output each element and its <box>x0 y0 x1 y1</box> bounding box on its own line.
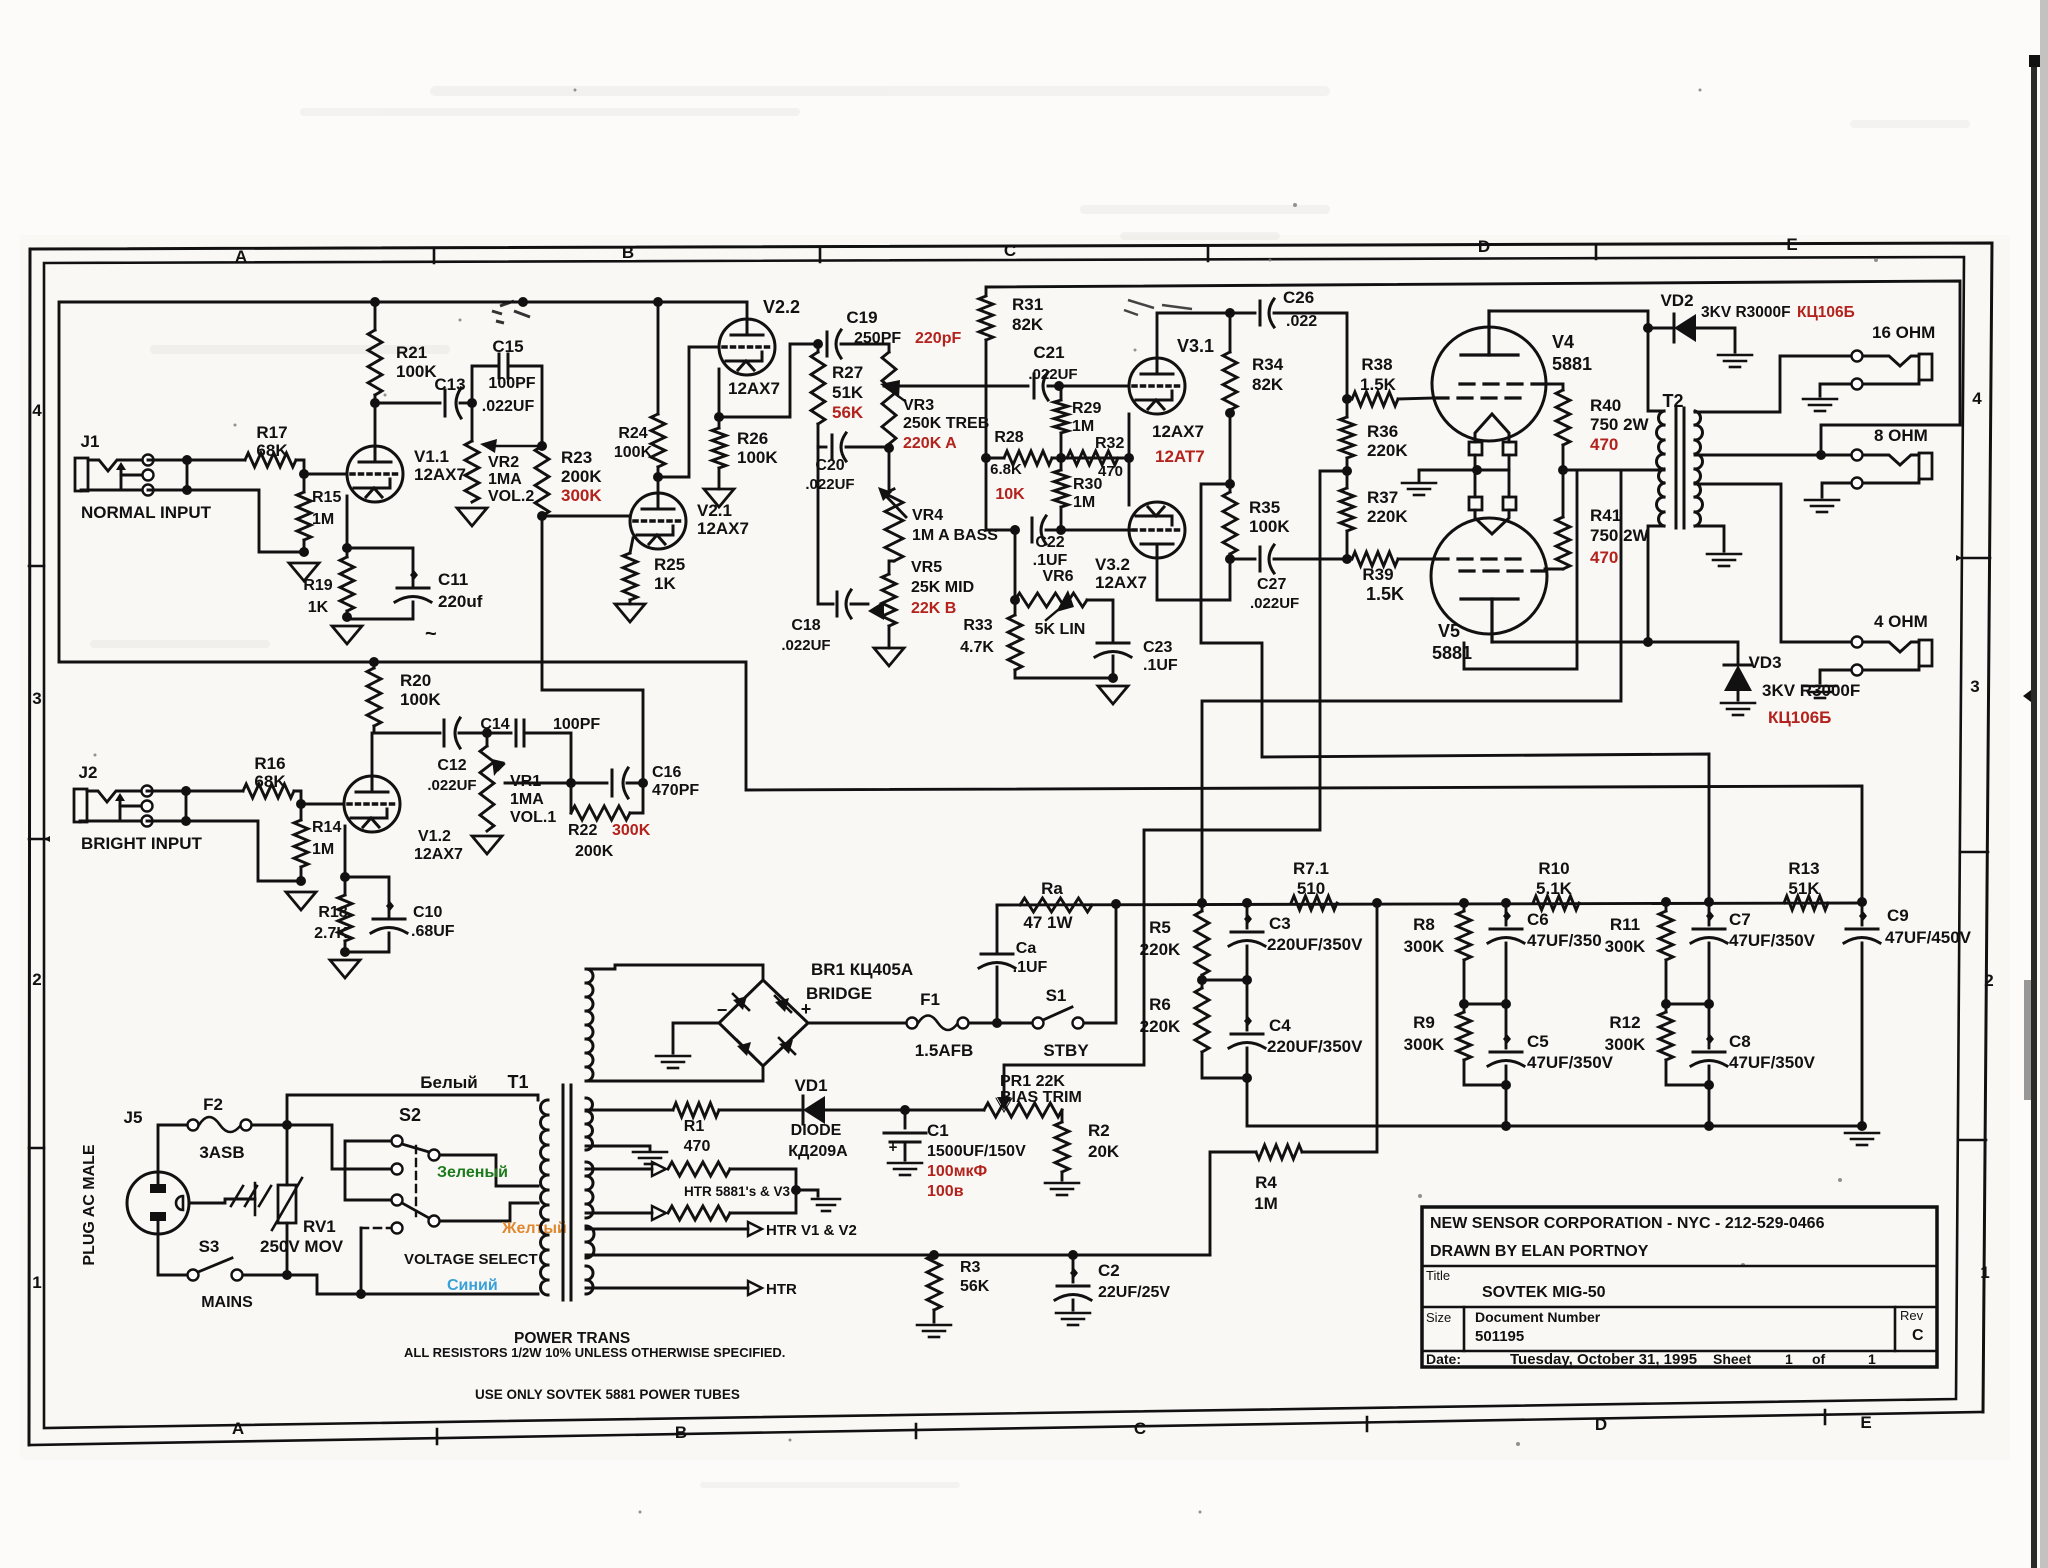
svg-text:300K: 300K <box>612 822 651 839</box>
capacitor C4 220UF/350V <box>1246 980 1249 1030</box>
svg-text:R24: R24 <box>618 425 647 442</box>
svg-text:T2: T2 <box>1662 391 1683 411</box>
wire NFB line from R31 to output jacks <box>986 281 1960 454</box>
svg-text:220UF/350V: 220UF/350V <box>1267 935 1363 954</box>
svg-text:C: C <box>1134 1419 1146 1438</box>
svg-text:F1: F1 <box>920 990 940 1009</box>
node R5/R6 <box>1197 975 1207 985</box>
svg-text:5K LIN: 5K LIN <box>1035 621 1086 638</box>
resistor R11 300K <box>1659 911 1673 960</box>
node C16 out <box>638 778 648 788</box>
svg-text:12AX7: 12AX7 <box>728 379 780 398</box>
svg-text:4 OHM: 4 OHM <box>1874 612 1928 631</box>
svg-text:200K: 200K <box>575 843 614 860</box>
capacitor C22 .1UF <box>1031 518 1034 542</box>
svg-text:Sheet: Sheet <box>1713 1351 1751 1367</box>
ground supply bus <box>1845 1132 1879 1135</box>
svg-text:R27: R27 <box>832 363 863 382</box>
svg-text:HTR V1 & V2: HTR V1 & V2 <box>766 1222 857 1239</box>
wire J5 earth pin <box>190 1199 255 1203</box>
svg-text:1: 1 <box>1868 1351 1876 1367</box>
node V1.1 plate / C13 <box>370 398 380 408</box>
wire V2.2 plate to rail <box>746 302 749 319</box>
svg-text:Title: Title <box>1426 1268 1450 1283</box>
scan scribble noise near node K <box>492 301 530 323</box>
svg-text:D: D <box>1478 237 1490 256</box>
svg-text:SOVTEK MIG-50: SOVTEK MIG-50 <box>1482 1284 1606 1301</box>
svg-text:Size: Size <box>1426 1310 1451 1325</box>
svg-text:Tuesday, October 31, 1995: Tuesday, October 31, 1995 <box>1510 1351 1697 1368</box>
ground VD2 <box>1718 354 1752 357</box>
switch S2 bottom contact <box>392 1223 403 1234</box>
svg-text:250PF: 250PF <box>854 330 901 347</box>
wire OT primary bottom <box>1648 526 1664 642</box>
svg-text:VR4: VR4 <box>912 507 943 524</box>
node V1.1 grid <box>299 469 309 479</box>
svg-text:R6: R6 <box>1149 995 1171 1014</box>
svg-text:1M: 1M <box>312 841 334 858</box>
capacitor C27 .022UF <box>1230 558 1255 561</box>
wire VR1 wiper to C16 <box>505 782 571 785</box>
svg-text:R38: R38 <box>1361 355 1392 374</box>
svg-text:12AX7: 12AX7 <box>414 465 466 484</box>
wire V4 plate to VD2 node <box>1489 311 1648 328</box>
svg-text:S1: S1 <box>1046 986 1067 1005</box>
triode V1.1 12AX7 <box>347 446 403 502</box>
svg-text:R19: R19 <box>303 577 332 594</box>
svg-text:1: 1 <box>1785 1351 1793 1367</box>
border frame inner <box>44 257 1964 1428</box>
svg-text:C10: C10 <box>413 904 442 921</box>
svg-text:220K: 220K <box>1140 1017 1181 1036</box>
ground humdinger <box>812 1198 840 1201</box>
ground 8 ohm jack <box>1805 499 1839 502</box>
ground power cathodes <box>1402 482 1436 485</box>
svg-text:C18: C18 <box>791 617 820 634</box>
node Ra right / S1 <box>1111 899 1121 909</box>
node B+ rail junctions <box>370 297 380 307</box>
svg-text:C15: C15 <box>492 337 523 356</box>
svg-text:100K: 100K <box>737 448 778 467</box>
svg-text:R26: R26 <box>737 429 768 448</box>
svg-text:V3.1: V3.1 <box>1177 336 1214 356</box>
svg-text:68K: 68K <box>256 441 288 460</box>
wire S1 to B+ <box>1084 904 1116 1023</box>
wire grid to V1.1 <box>304 473 347 476</box>
svg-text:4.7K: 4.7K <box>960 639 994 656</box>
node C22 left <box>1010 525 1020 535</box>
svg-text:R31: R31 <box>1012 295 1043 314</box>
svg-text:V4: V4 <box>1552 332 1574 352</box>
wire power cathodes to ground <box>1419 469 1509 472</box>
capacitor C11 220uf <box>347 548 413 586</box>
svg-text:300K: 300K <box>561 486 602 505</box>
resistor R40 750 2W <box>1545 384 1563 390</box>
resistor R39 1.5K <box>1352 552 1398 566</box>
svg-text:470: 470 <box>1590 548 1618 567</box>
svg-text:100K: 100K <box>396 362 437 381</box>
resistor R5 220K <box>1195 911 1209 975</box>
capacitor C15 100PF <box>498 354 501 378</box>
svg-text:R17: R17 <box>256 423 287 442</box>
wire V1.1 plate <box>374 403 377 446</box>
wire C15 branch <box>472 366 499 441</box>
wire J2 sleeve to ground node <box>147 821 301 881</box>
svg-text:220uf: 220uf <box>438 592 483 611</box>
svg-text:C19: C19 <box>846 308 877 327</box>
svg-text:E: E <box>1786 235 1797 254</box>
transformer T1 bias/heater secondaries <box>586 1098 593 1150</box>
svg-text:1.5AFB: 1.5AFB <box>915 1041 974 1060</box>
svg-text:1M: 1M <box>312 511 334 528</box>
wire PI tail <box>986 458 1015 530</box>
svg-text:16 OHM: 16 OHM <box>1872 323 1935 342</box>
node C21 out <box>1054 381 1064 391</box>
wire V3.1 plate <box>1157 313 1230 358</box>
svg-text:C13: C13 <box>434 375 465 394</box>
svg-text:68K: 68K <box>254 772 286 791</box>
pentode V5 5881 <box>1431 518 1547 634</box>
resistor R34 82K <box>1229 313 1232 352</box>
heater HTR arrow <box>586 1287 748 1290</box>
svg-text:A: A <box>235 247 247 266</box>
ground V2.2 cathode <box>704 489 734 507</box>
svg-text:470PF: 470PF <box>652 782 699 799</box>
svg-text:VD1: VD1 <box>794 1076 827 1095</box>
potentiometer VR4 1M A BASS <box>888 448 891 489</box>
svg-text:1M: 1M <box>1073 494 1095 511</box>
resistor R12 300K <box>1659 1012 1673 1060</box>
wire R33/C23 bottom <box>1015 672 1113 678</box>
svg-text:R8: R8 <box>1413 915 1435 934</box>
capacitor C8 47UF/350V <box>1708 1004 1711 1048</box>
heater V1 V2 arrow <box>586 1228 748 1231</box>
resistor R10 5.1K <box>1533 896 1579 910</box>
svg-text:R9: R9 <box>1413 1013 1435 1032</box>
svg-text:J1: J1 <box>81 432 100 451</box>
resistor Ra 47 1W <box>1020 898 1092 912</box>
node bias feed <box>1342 466 1352 476</box>
svg-text:1M: 1M <box>1254 1194 1278 1213</box>
svg-text:C6: C6 <box>1527 910 1549 929</box>
resistor R29 1M <box>1060 386 1063 400</box>
svg-text:MAINS: MAINS <box>201 1294 253 1311</box>
resistor R25 1K <box>630 538 633 553</box>
potentiometer PR1 22K BIAS TRIM <box>984 1103 1062 1117</box>
svg-text:100K: 100K <box>1249 517 1290 536</box>
border tick marks left <box>29 566 48 1148</box>
ground VD3 <box>1721 702 1755 705</box>
svg-text:1MA: 1MA <box>488 471 522 488</box>
wire OT secondary bottom to ground <box>1695 526 1724 551</box>
wire bias feed line to PR1 <box>1004 471 1347 1098</box>
node V1.2 plate <box>374 732 440 735</box>
capacitor C12 .022UF <box>443 720 446 746</box>
border tick marks right <box>1958 558 1990 1140</box>
resistor R36 220K <box>1346 399 1349 417</box>
wire heater line long <box>586 1254 1210 1257</box>
node R28/R32 junction <box>981 453 991 463</box>
wire V1.1 cathode <box>346 496 349 548</box>
capacitor Ca .1UF <box>996 905 999 952</box>
diode VD3 3KV R3000F <box>1648 642 1738 663</box>
svg-text:R14: R14 <box>312 819 341 836</box>
node C12 out <box>482 728 492 738</box>
svg-text:12AX7: 12AX7 <box>414 846 463 863</box>
wire 16 ohm sleeve ground <box>1820 384 1851 396</box>
svg-text:1K: 1K <box>654 574 676 593</box>
ground R2 <box>1045 1182 1079 1185</box>
svg-text:R35: R35 <box>1249 498 1280 517</box>
resistor R27 51K <box>817 344 820 352</box>
svg-text:BRIDGE: BRIDGE <box>806 984 872 1003</box>
scan edge artifact right <box>2031 55 2037 1568</box>
node F2 out <box>252 1124 287 1127</box>
wire preamp B+ rail top <box>59 302 747 662</box>
svg-text:.1UF: .1UF <box>1013 959 1048 976</box>
wire VR3 wiper to C21 <box>884 385 1028 388</box>
node C1 <box>900 1105 910 1115</box>
wire heater humdinger <box>730 1169 796 1213</box>
ground J1 input <box>289 563 319 581</box>
svg-text:D: D <box>1595 1415 1607 1434</box>
svg-text:47UF/350V: 47UF/350V <box>1527 1053 1614 1072</box>
ground tone stack <box>874 648 904 666</box>
capacitor C14 100PF <box>487 732 511 735</box>
node R8/R9 C5/C6 <box>1459 999 1469 1009</box>
svg-text:C2: C2 <box>1098 1261 1120 1280</box>
wire PI B+ feed stair <box>1201 484 1709 903</box>
transformer T1 primary winding <box>541 1100 548 1295</box>
wire J2 tip to R16 <box>147 790 243 793</box>
svg-text:C3: C3 <box>1269 914 1291 933</box>
svg-text:100K: 100K <box>614 444 653 461</box>
svg-text:C20: C20 <box>815 457 844 474</box>
capacitor C1 1500UF/150V <box>904 1110 907 1128</box>
node OT top / VD2 <box>1643 323 1653 333</box>
potentiometer VR1 1MA VOL.1 <box>486 733 489 746</box>
ground VR2 <box>457 508 487 526</box>
svg-text:B: B <box>675 1423 687 1442</box>
ground 4 ohm jack <box>1803 685 1837 688</box>
ground C1 <box>888 1162 922 1165</box>
svg-text:DIODE: DIODE <box>791 1122 842 1139</box>
svg-text:.022UF: .022UF <box>482 398 535 415</box>
varistor RV1 250V MOV <box>286 1125 289 1185</box>
svg-text:C26: C26 <box>1283 288 1314 307</box>
wire J1 sleeve to ground node <box>148 490 304 552</box>
wire J1 ring strap <box>186 460 189 490</box>
svg-text:470: 470 <box>1590 435 1618 454</box>
svg-text:100PF: 100PF <box>553 716 600 733</box>
transformer T1 core <box>562 1085 565 1300</box>
svg-text:47UF/350V: 47UF/350V <box>1729 1053 1816 1072</box>
svg-text:R1: R1 <box>684 1118 705 1135</box>
svg-text:HTR: HTR <box>766 1281 797 1298</box>
wire V2.1 grid bus down to bright channel <box>542 516 643 783</box>
node V3.1 plate / C26 / R34 <box>1225 308 1235 318</box>
svg-text:220K: 220K <box>1140 940 1181 959</box>
wire J1 tip to R17 <box>148 459 245 462</box>
node C13 out <box>467 398 477 408</box>
resistor R8 300K <box>1457 911 1471 960</box>
svg-text:.1UF: .1UF <box>1033 552 1068 569</box>
svg-text:S2: S2 <box>399 1105 421 1125</box>
wire tone string down <box>818 446 833 604</box>
svg-text:220K: 220K <box>1367 441 1408 460</box>
svg-text:12AX7: 12AX7 <box>1152 422 1204 441</box>
svg-text:R41: R41 <box>1590 506 1621 525</box>
resistor R35 100K <box>1229 484 1232 492</box>
node 8 ohm NFB tap <box>1816 450 1826 460</box>
svg-text:~: ~ <box>425 623 437 645</box>
wire yellow tap <box>440 1203 538 1221</box>
svg-text:R18: R18 <box>318 904 347 921</box>
svg-text:Ca: Ca <box>1016 940 1037 957</box>
capacitor C23 .1UF <box>1087 600 1113 640</box>
svg-text:6.8K: 6.8K <box>990 461 1022 478</box>
wire 4 ohm tap <box>1695 484 1851 642</box>
border tick marks bottom <box>437 1410 1825 1444</box>
svg-text:5881: 5881 <box>1552 354 1592 374</box>
node R11/R12 C7/C8 <box>1661 999 1671 1009</box>
svg-text:3: 3 <box>32 689 41 708</box>
svg-text:8 OHM: 8 OHM <box>1874 426 1928 445</box>
svg-text:4: 4 <box>32 401 42 420</box>
triode V3.2 12AX7 (flipped) <box>1129 502 1185 558</box>
capacitor C16 470PF <box>571 782 607 785</box>
svg-text:250K TREB: 250K TREB <box>903 415 989 432</box>
resistor R23 200K <box>535 446 549 516</box>
svg-text:RV1: RV1 <box>303 1217 336 1236</box>
svg-text:C21: C21 <box>1033 343 1064 362</box>
ground V2.1 cathode <box>615 604 645 622</box>
svg-text:Желтый: Желтый <box>501 1220 567 1237</box>
svg-text:S3: S3 <box>199 1237 220 1256</box>
svg-text:82K: 82K <box>1012 315 1044 334</box>
ground bridge <box>656 1055 690 1058</box>
resistor R18 2.7K <box>344 877 347 895</box>
capacitor C13 .022UF <box>375 402 440 405</box>
svg-text:1.5K: 1.5K <box>1366 584 1404 604</box>
svg-text:4: 4 <box>1972 389 1982 408</box>
wire V2.1 plate to V2.2 grid <box>658 347 717 477</box>
wire bias winding lower to ground <box>586 1146 650 1150</box>
svg-text:1M: 1M <box>1072 418 1094 435</box>
svg-text:R25: R25 <box>654 555 685 574</box>
triode V1.2 12AX7 <box>344 776 400 832</box>
svg-text:100PF: 100PF <box>488 375 535 392</box>
node V2.1 grid <box>537 511 547 521</box>
resistor R31 82K <box>979 296 993 340</box>
resistor R2 20K <box>1061 1110 1064 1122</box>
svg-text:R5: R5 <box>1149 918 1171 937</box>
svg-text:C22: C22 <box>1035 534 1064 551</box>
svg-text:КД209А: КД209А <box>788 1143 848 1160</box>
svg-text:R40: R40 <box>1590 396 1621 415</box>
resistor R9 300K <box>1457 1012 1471 1060</box>
resistor R20 100K <box>373 662 376 668</box>
svg-text:PLUG AC MALE: PLUG AC MALE <box>81 1144 98 1266</box>
resistor R28 6.8K <box>986 457 1004 460</box>
node R15 bottom <box>299 547 309 557</box>
potentiometer VR3 250K TREB <box>882 352 896 444</box>
connector J2 BRIGHT INPUT <box>74 789 87 822</box>
ground J2 input <box>286 892 316 910</box>
rectifier BR1 bridge <box>586 965 763 980</box>
svg-text:VR3: VR3 <box>903 397 934 414</box>
wire 8 ohm sleeve ground <box>1822 483 1851 497</box>
svg-text:220K: 220K <box>1367 507 1408 526</box>
svg-text:2: 2 <box>1984 971 1993 990</box>
resistor R14 1M <box>300 804 303 820</box>
svg-text:+: + <box>889 1139 898 1156</box>
svg-text:R22: R22 <box>568 822 597 839</box>
svg-text:J5: J5 <box>124 1108 143 1127</box>
svg-text:T1: T1 <box>507 1072 528 1092</box>
node Ca/S1 <box>969 1022 1032 1025</box>
node S2 common <box>356 1289 366 1299</box>
svg-text:R2: R2 <box>1088 1121 1110 1140</box>
svg-text:F2: F2 <box>203 1095 223 1114</box>
triode V2.2 12AX7 <box>719 319 775 375</box>
svg-text:Белый: Белый <box>420 1073 477 1092</box>
svg-text:51K: 51K <box>832 383 864 402</box>
resistor R21 100K <box>374 302 377 330</box>
svg-text:V2.1: V2.1 <box>697 501 732 520</box>
capacitor C19 250PF <box>826 332 829 356</box>
transformer T2 secondary winding <box>1695 411 1703 526</box>
svg-text:V1.1: V1.1 <box>414 447 449 466</box>
svg-text:R16: R16 <box>254 754 285 773</box>
svg-text:V1.2: V1.2 <box>418 828 451 845</box>
svg-text:NORMAL INPUT: NORMAL INPUT <box>81 503 212 522</box>
node C4 bottom <box>1242 1073 1252 1083</box>
svg-text:КЦ106Б: КЦ106Б <box>1797 304 1855 321</box>
svg-text:R29: R29 <box>1072 400 1101 417</box>
ground V1.1 cathode <box>332 626 362 644</box>
capacitor C10 .68UF <box>345 877 389 917</box>
wire V5 plate loop <box>1464 470 1577 669</box>
svg-text:R11: R11 <box>1610 915 1640 934</box>
ground 16 ohm jack <box>1803 398 1837 401</box>
svg-text:470: 470 <box>684 1138 711 1155</box>
potentiometer VR2 1MA VOL.2 <box>465 441 479 502</box>
svg-text:47UF/350V: 47UF/350V <box>1729 931 1816 950</box>
connector J5 PLUG AC MALE <box>127 1172 189 1234</box>
svg-text:C11: C11 <box>438 570 468 589</box>
svg-text:C27: C27 <box>1257 576 1286 593</box>
capacitor C26 .022 <box>1230 312 1255 315</box>
svg-text:Date:: Date: <box>1426 1351 1461 1367</box>
svg-text:R3: R3 <box>960 1259 981 1276</box>
svg-text:.022UF: .022UF <box>1250 595 1299 612</box>
svg-text:C4: C4 <box>1269 1016 1291 1035</box>
svg-text:VR1: VR1 <box>510 773 541 790</box>
svg-text:.1UF: .1UF <box>1143 657 1178 674</box>
resistor R37 220K <box>1346 471 1349 488</box>
title block box <box>1422 1207 1937 1367</box>
border tick marks top <box>434 246 1596 263</box>
svg-text:C5: C5 <box>1527 1032 1549 1051</box>
capacitor C5 47UF/350V <box>1505 1004 1508 1048</box>
svg-text:47UF/350: 47UF/350 <box>1527 931 1602 950</box>
svg-text:501195: 501195 <box>1475 1328 1524 1345</box>
svg-text:1.5K: 1.5K <box>1360 375 1397 394</box>
diode VD2 3KV R3000F <box>1648 327 1672 330</box>
svg-text:1500UF/150V: 1500UF/150V <box>927 1143 1026 1160</box>
svg-text:C23: C23 <box>1143 639 1172 656</box>
